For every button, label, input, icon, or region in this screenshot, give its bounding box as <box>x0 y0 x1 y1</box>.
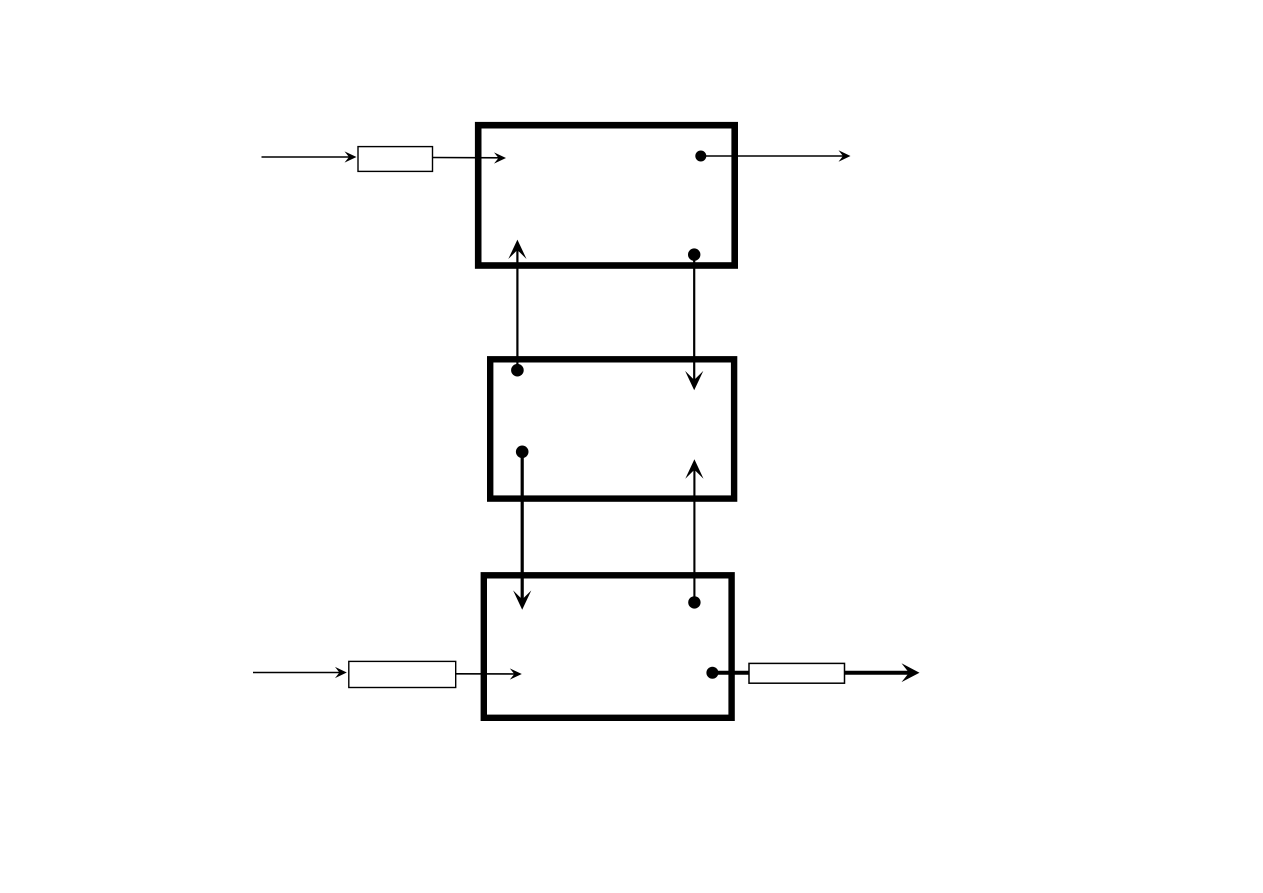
wire: thick output with large arrowhead <box>845 663 920 682</box>
wire: bottom input segment with arrowhead <box>253 667 347 678</box>
node: dot on middle box bottom-left <box>516 446 529 459</box>
block box B1 (top system) <box>478 125 735 265</box>
node: dot on middle box top-left <box>511 364 524 377</box>
node: bottom output dot on right edge of B3 <box>706 667 718 679</box>
block box B2 (middle system) <box>490 359 734 498</box>
wire: vertical up from B3 to B2 with up arrowhead <box>685 459 703 602</box>
node: dot on bottom box top-right <box>688 596 700 608</box>
wire: vertical down from B1 to B2 with down arrowhead <box>685 255 703 391</box>
label box L3 (bottom output gain) <box>749 663 845 683</box>
node: top output dot <box>695 151 706 162</box>
wire: top output with arrowhead <box>701 150 851 161</box>
wire: thick output from dot to label box <box>712 671 749 675</box>
label box L1 (top input gain) <box>358 147 433 172</box>
wire: vertical down from B2 to B3 with down arrowhead <box>513 452 531 610</box>
label box L2 (bottom input gain) <box>349 661 456 687</box>
wire: bottom input into box B3 with arrowhead <box>456 668 522 679</box>
block box B3 (bottom system) <box>484 575 732 718</box>
wire: top input into box B1 with arrowhead <box>433 152 507 163</box>
wire: vertical up from B2 to B1 with up arrowhead <box>508 240 526 371</box>
wire: top input segment with arrowhead <box>262 151 357 162</box>
node: dot on top box bottom-right <box>688 248 700 260</box>
